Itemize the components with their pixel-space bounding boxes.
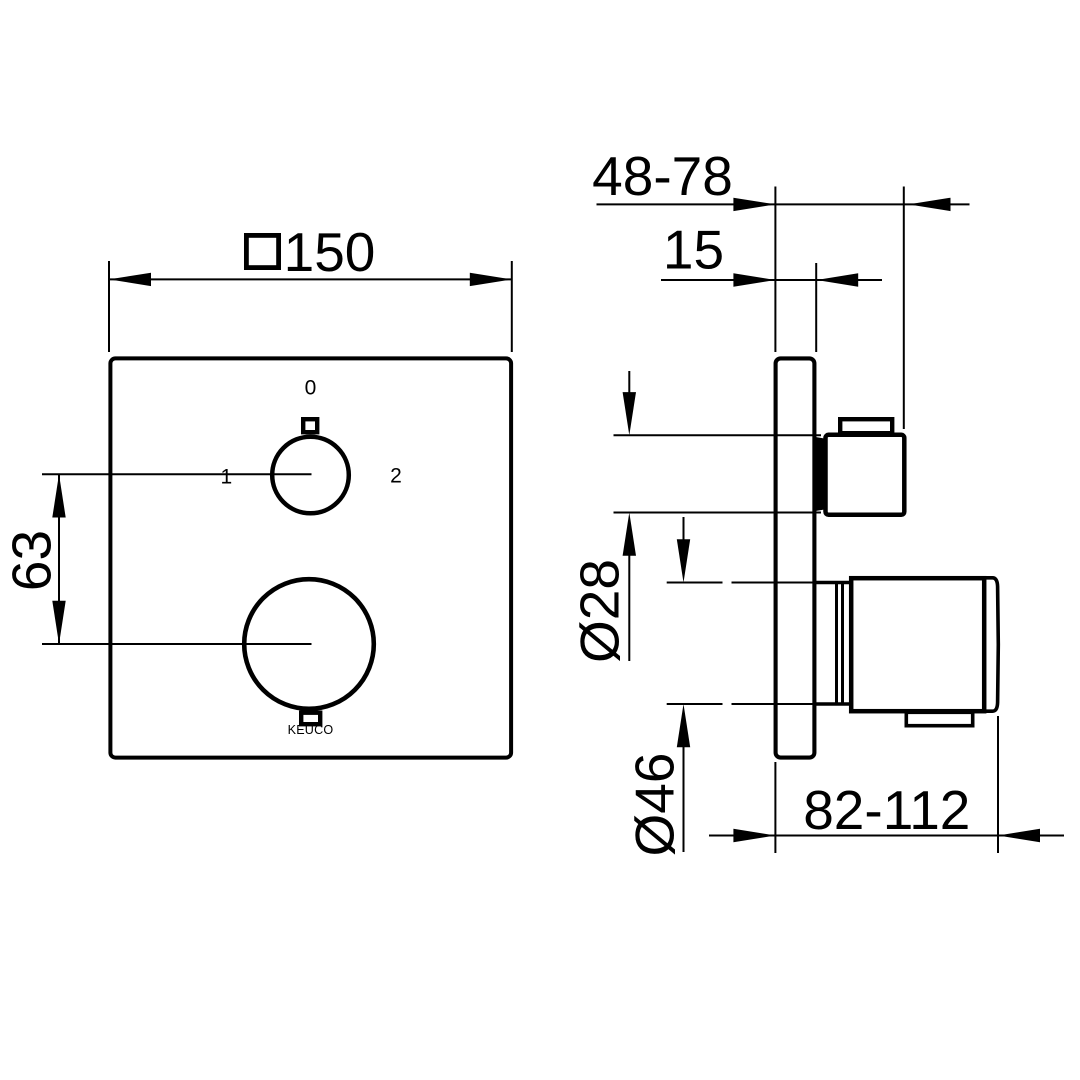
big knob circle <box>244 579 374 709</box>
dimension 82-112 arrow left-pointing <box>998 829 1040 842</box>
extension line small knob front <box>903 187 905 430</box>
dimension dia28 top line <box>614 434 822 436</box>
svg-text:Ø46: Ø46 <box>624 753 686 857</box>
dimension 63 line <box>58 474 60 644</box>
dimension dia46 lower leader <box>683 746 685 852</box>
svg-text:2: 2 <box>390 465 402 488</box>
big knob bottom tab <box>301 713 320 725</box>
dimension dia28 arrow down <box>623 392 636 435</box>
dimension dia46 arrow up <box>677 704 690 747</box>
svg-text:Ø28: Ø28 <box>569 559 631 663</box>
big knob side bottom tab <box>906 712 972 725</box>
extension line wall face upper <box>774 187 776 353</box>
dimension 15 line <box>661 279 882 281</box>
big knob center line <box>42 643 312 645</box>
big knob side neck top edge <box>816 581 851 585</box>
dimension square symbol <box>246 235 278 267</box>
dimension square-150 arrow right <box>470 273 512 286</box>
dimension square-150 line <box>109 278 512 280</box>
dimension dia28 arrow up <box>623 513 636 556</box>
dimension 82-112 arrow right-pointing <box>733 829 775 842</box>
dimension square-150 extension line right <box>511 261 513 352</box>
svg-text:KEUCO: KEUCO <box>288 723 334 737</box>
dimension 48-78 line <box>597 203 970 205</box>
svg-text:48-78: 48-78 <box>592 145 733 207</box>
dimension dia28 bottom line <box>614 512 822 514</box>
small knob side top step <box>840 419 892 433</box>
extension line wall face lower <box>774 762 776 853</box>
svg-text:1: 1 <box>220 466 232 489</box>
big knob side front cap <box>986 578 999 711</box>
dimension dia46 bottom line <box>667 703 723 705</box>
dimension dia46 arrow down <box>677 539 690 582</box>
side view wall plate <box>776 358 815 757</box>
dimension 63 arrow down <box>52 601 65 644</box>
extension line plate rear face <box>815 263 817 352</box>
dimension 48-78 arrow left-pointing <box>909 198 951 211</box>
dimension 82-112 line <box>709 835 1064 837</box>
front view escutcheon plate (square 150) <box>110 358 511 757</box>
svg-text:15: 15 <box>663 219 724 281</box>
svg-text:63: 63 <box>1 530 63 591</box>
svg-text:0: 0 <box>305 377 317 400</box>
dimension dia28 lower leader <box>628 555 630 661</box>
dimension dia28 upper leader <box>628 371 630 393</box>
small knob index tab <box>303 419 317 432</box>
big knob side flange line b <box>841 583 844 705</box>
dimension square-150 arrow left <box>109 273 151 286</box>
dimension 63 arrow up <box>52 474 65 517</box>
dimension dia46 top line <box>667 582 723 584</box>
small knob side body <box>826 435 905 515</box>
big knob side neck bottom edge <box>816 702 851 706</box>
svg-text:82-112: 82-112 <box>803 779 970 841</box>
dimension 15 arrow right-pointing <box>733 273 775 286</box>
dimension 48-78 arrow right-pointing <box>733 198 775 211</box>
small knob center line <box>42 473 312 475</box>
small knob circle <box>272 437 349 514</box>
dimension square-150 extension line left <box>108 261 110 352</box>
svg-text:150: 150 <box>284 221 376 283</box>
big knob side flange line a <box>835 583 838 705</box>
extension line big knob front <box>997 716 999 853</box>
dimension dia46 upper leader <box>683 517 685 540</box>
dimension 15 arrow left-pointing <box>816 273 858 286</box>
small knob side neck (solid) <box>816 437 828 511</box>
big knob side body <box>851 578 984 711</box>
